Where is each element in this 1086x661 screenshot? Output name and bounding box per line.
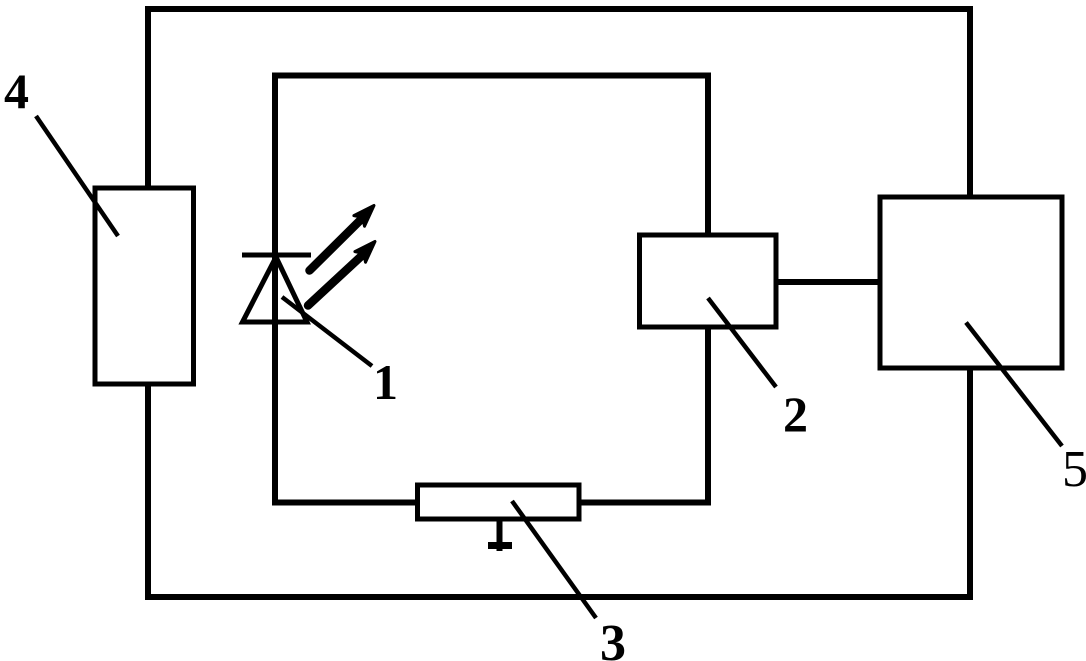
svg-text:3: 3 xyxy=(600,615,626,661)
block 3 xyxy=(418,485,580,519)
block 2 xyxy=(640,235,777,327)
svg-text:2: 2 xyxy=(783,386,808,442)
leader line 5 xyxy=(966,323,1062,447)
terminal mark under block 3 xyxy=(497,519,503,551)
svg-text:5: 5 xyxy=(1062,441,1086,498)
leader line 2 xyxy=(708,298,776,387)
leader line 4 xyxy=(36,116,118,236)
svg-text:1: 1 xyxy=(373,354,398,410)
wire box2 to box5 xyxy=(776,279,880,285)
LED emission arrow upper xyxy=(310,206,375,271)
block 5 xyxy=(880,197,1062,368)
LED D1 triangle xyxy=(243,257,308,322)
inner loop wire xyxy=(275,76,708,503)
leader line 3 xyxy=(512,501,596,618)
LED emission arrow lower xyxy=(308,242,375,306)
block 4 xyxy=(95,188,194,384)
outer loop wire xyxy=(148,9,970,597)
svg-text:4: 4 xyxy=(4,63,29,119)
LED D1 cathode bar xyxy=(242,253,311,258)
leader line 1 xyxy=(282,297,372,366)
